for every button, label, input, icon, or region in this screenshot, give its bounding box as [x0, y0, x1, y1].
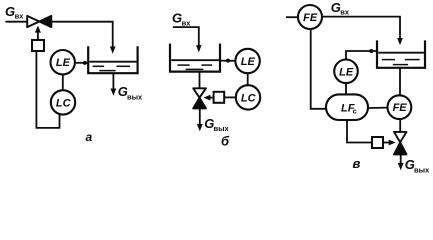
label G_вх (в)	[331, 0, 350, 17]
liquid surface (б)	[171, 59, 219, 61]
instrument LE (в)	[334, 60, 358, 84]
svg-text:LC: LC	[241, 92, 257, 104]
svg-text:вых: вых	[414, 165, 430, 174]
instrument FE outlet (в)	[388, 95, 412, 119]
wire LE to LC (a)	[62, 74, 64, 90]
tank (в)	[377, 40, 425, 67]
wire inlet (б)	[173, 27, 199, 45]
instrument LC (a)	[51, 90, 75, 114]
instrument LE (a)	[51, 50, 75, 74]
label G_вых (в)	[405, 157, 430, 174]
junction dot (a)	[83, 61, 87, 65]
outlet arrow (б)	[197, 108, 203, 131]
label G_вых (a)	[118, 84, 143, 101]
liquid surface (в)	[378, 52, 424, 54]
tank (б)	[170, 44, 220, 72]
wire LE to LC (б)	[247, 73, 249, 85]
valve V2 (б)	[193, 88, 206, 108]
instrument LE (б)	[235, 49, 259, 73]
wire LFc to square (в)	[347, 120, 372, 143]
wire stub left of FE (в)	[286, 16, 298, 18]
arrow square to valve (в)	[383, 140, 396, 146]
junction dot (в)	[369, 49, 373, 53]
arrow square to valve (б)	[203, 95, 213, 101]
svg-text:G: G	[5, 4, 15, 19]
wire LFc to FE (в)	[368, 107, 388, 109]
instrument FE upstream (в)	[298, 5, 322, 29]
svg-text:вых: вых	[214, 124, 230, 133]
svg-text:LE: LE	[339, 66, 354, 78]
liquid dashes (a)	[93, 66, 130, 70]
tank (a)	[88, 46, 137, 73]
controller LFc (в)	[326, 94, 368, 120]
svg-text:вх: вх	[15, 12, 25, 21]
label G_вх (б)	[172, 11, 191, 28]
svg-text:вх: вх	[340, 8, 350, 17]
instrument LC (б)	[236, 85, 260, 109]
liquid surface (a)	[90, 61, 137, 63]
actuator square (в)	[372, 137, 383, 148]
junction dot (б)	[226, 59, 230, 63]
wire tank to FE (в)	[399, 68, 401, 96]
wire LE to tank (a)	[75, 62, 88, 64]
wire FE to valve (в)	[399, 119, 401, 132]
valve V1 (a)	[27, 16, 51, 27]
wire LE to tank (в)	[346, 51, 377, 60]
wire LE to LFc (в)	[345, 83, 347, 94]
svg-text:LC: LC	[56, 97, 72, 109]
wire tank to valve (б)	[199, 72, 201, 89]
arrow into tank (a)	[110, 47, 116, 54]
wire valve to tank (a)	[51, 22, 112, 47]
svg-text:вых: вых	[127, 92, 143, 101]
wire LC to actuator square (a)	[36, 51, 59, 128]
svg-text:LE: LE	[241, 56, 256, 68]
actuator square (a)	[32, 40, 44, 51]
arrow into tank (б)	[196, 45, 202, 52]
svg-text:FE: FE	[393, 102, 408, 114]
label G_вх (a)	[5, 4, 24, 21]
wire FE to tank (в)	[322, 17, 400, 39]
wire square to LC (б)	[224, 96, 236, 98]
svg-text:в: в	[353, 156, 361, 171]
liquid dashes (б)	[177, 65, 212, 69]
svg-text:б: б	[221, 134, 230, 149]
wire inlet (a)	[6, 21, 28, 23]
svg-text:G: G	[172, 11, 182, 26]
valve V3 (в)	[394, 132, 407, 155]
svg-text:а: а	[86, 130, 93, 144]
svg-text:вх: вх	[182, 19, 192, 28]
svg-text:G: G	[331, 0, 341, 15]
wire tank to LE (б)	[220, 60, 235, 62]
svg-text:FE: FE	[303, 12, 318, 24]
arrow into tank (в)	[397, 38, 403, 45]
label G_вых (б)	[204, 116, 229, 133]
svg-text:LE: LE	[56, 57, 71, 69]
outlet arrow (в)	[398, 154, 404, 170]
wire FE down to LFc (в)	[311, 29, 326, 109]
arrow square to valve (a)	[35, 26, 41, 40]
svg-text:с: с	[353, 107, 357, 116]
outlet arrow (a)	[111, 73, 117, 96]
liquid dashes (в)	[382, 60, 420, 65]
actuator square (б)	[214, 92, 225, 103]
